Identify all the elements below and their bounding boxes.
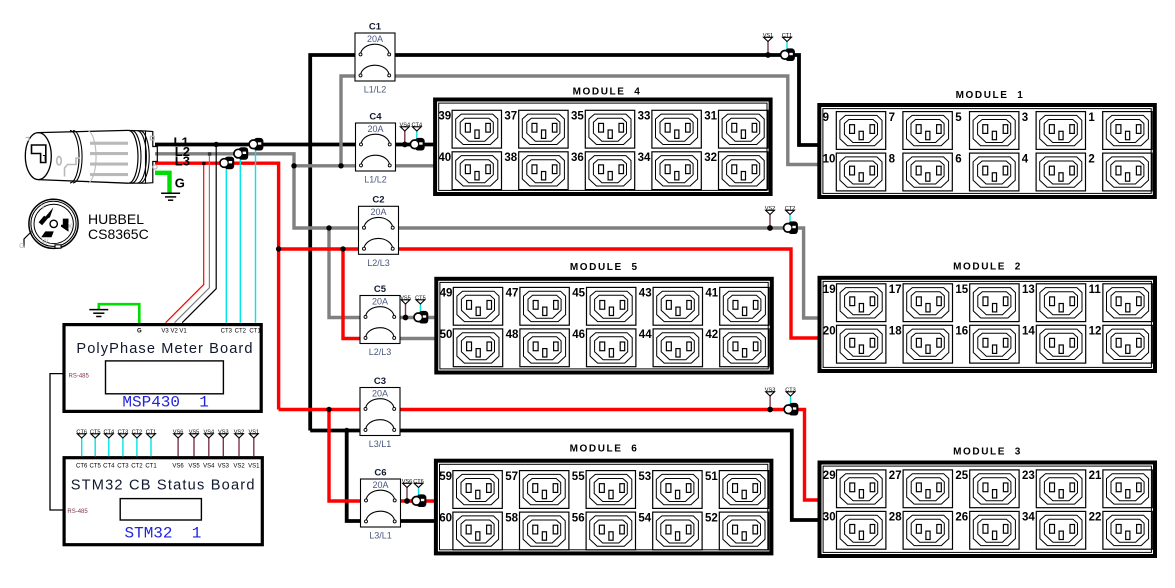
svg-text:55: 55 (572, 471, 585, 483)
svg-text:44: 44 (639, 329, 652, 341)
net flag VS1 (249, 430, 260, 438)
CT1 sense wire (786, 42, 788, 56)
module MODULE 2 outlet strip (820, 261, 1156, 371)
net flag VS6 (173, 430, 184, 438)
svg-text:41: 41 (705, 288, 718, 300)
svg-text:C6: C6 (374, 467, 386, 478)
connector label (88, 211, 149, 242)
wire ground green to meter board (99, 304, 140, 323)
svg-text:MODULE 1: MODULE 1 (956, 90, 1025, 101)
svg-text:7: 7 (889, 112, 895, 124)
svg-text:3: 3 (1022, 112, 1028, 124)
wire L2 C4 output to module 4 bottom (390, 164, 434, 167)
connector face view (round receptacle) (24, 199, 78, 248)
svg-text:15: 15 (955, 284, 968, 296)
wire C5 output to module 5 bottom (395, 337, 435, 340)
net flag VS2 (234, 430, 245, 438)
VS2 sense tap wire (769, 215, 771, 229)
net flag VS6 (402, 479, 413, 487)
svg-text:20A: 20A (372, 480, 388, 490)
net flag VS2 (765, 206, 776, 214)
CT sensor on wire (CT6) (412, 494, 426, 507)
CT sensor on wire (CT2 on L2) (234, 147, 248, 160)
svg-text:56: 56 (572, 512, 585, 524)
net flag CT4 (104, 430, 115, 438)
svg-text:52: 52 (705, 512, 718, 524)
svg-text:VS2: VS2 (234, 430, 245, 436)
svg-text:19: 19 (823, 284, 836, 296)
wire L3 branch to C6 upper pole (329, 410, 367, 502)
junction L3/C6 branch junction (326, 407, 331, 412)
CT sensor on wire (CT3) (784, 403, 798, 416)
svg-text:VS5: VS5 (189, 430, 200, 436)
module MODULE 5 outlet strip (436, 262, 772, 373)
module MODULE 1 outlet strip (819, 90, 1155, 197)
svg-text:29: 29 (823, 470, 836, 482)
CT sensor on wire (CT1) (781, 48, 795, 61)
wire V2 sense tap (175, 154, 210, 323)
svg-text:54: 54 (638, 512, 651, 524)
svg-text:36: 36 (571, 152, 584, 164)
svg-text:20A: 20A (367, 34, 383, 44)
wire L1 riser to C1 and down to C3 (310, 55, 361, 431)
svg-text:31: 31 (704, 111, 717, 123)
svg-text:39: 39 (438, 111, 451, 123)
connector blade mark (32, 145, 46, 163)
svg-text:CT5: CT5 (415, 296, 426, 302)
svg-text:33: 33 (638, 111, 651, 123)
svg-text:Y: Y (41, 203, 46, 212)
svg-text:CT5: CT5 (90, 463, 102, 469)
svg-text:58: 58 (505, 512, 518, 524)
junction L3 branch junction (276, 246, 281, 251)
svg-text:VS1: VS1 (248, 463, 260, 469)
svg-text:37: 37 (504, 111, 517, 123)
junction L3/C5 branch junction (340, 246, 345, 251)
CB status sense flags above STM32 board (81, 438, 83, 456)
svg-text:49: 49 (440, 288, 453, 300)
svg-text:20A: 20A (370, 207, 386, 217)
circuit breaker C4 20A L1/L2 (356, 111, 396, 184)
svg-text:RS-485: RS-485 (69, 374, 90, 380)
svg-text:VS1: VS1 (249, 430, 260, 436)
net flag VS4 (204, 430, 215, 438)
net flag VS3 (765, 388, 776, 396)
svg-text:MODULE 3: MODULE 3 (953, 447, 1022, 458)
svg-text:CT1: CT1 (782, 33, 793, 39)
svg-text:11: 11 (1089, 284, 1102, 296)
wire L2 C5 output to module 5 top (395, 316, 435, 319)
net flag CT3 (785, 388, 796, 396)
CT sensor on wire (CT2) (784, 221, 798, 234)
circuit breaker C6 20A L3/L1 (361, 467, 401, 540)
svg-text:STM32 CB Status Board: STM32 CB Status Board (71, 477, 256, 493)
junction L1 riser junction (308, 142, 313, 147)
V2 tap junction (208, 152, 211, 155)
junction L2/C1 feed junction (338, 163, 343, 168)
wire L3 into C3 upper pole (279, 408, 366, 411)
svg-text:CS8365C: CS8365C (88, 226, 149, 242)
net flag CT4 (412, 123, 423, 131)
svg-text:VS6: VS6 (402, 479, 413, 485)
svg-text:VS4: VS4 (204, 430, 215, 436)
face blade W (41, 231, 54, 237)
CT5 sense wire (419, 304, 421, 318)
svg-text:VS2: VS2 (765, 206, 776, 212)
CT6 sense wire (418, 488, 420, 502)
svg-text:23: 23 (1022, 470, 1035, 482)
wire L1 into C3 lower pole (310, 429, 366, 433)
svg-text:MODULE 2: MODULE 2 (953, 261, 1022, 272)
svg-text:35: 35 (571, 111, 584, 123)
svg-text:C1: C1 (369, 21, 382, 32)
wire CT2 signal to meter board (239, 154, 241, 323)
junction L2 branch junction (291, 163, 296, 168)
svg-text:L3/L1: L3/L1 (369, 439, 392, 449)
svg-text:20A: 20A (372, 388, 388, 398)
net flag VS3 (218, 430, 229, 438)
svg-text:C2: C2 (372, 195, 384, 206)
V3 tap junction (202, 162, 205, 165)
wire L3 C6 output to module 6 top (395, 499, 434, 502)
svg-text:6: 6 (955, 153, 961, 165)
svg-text:42: 42 (705, 329, 718, 341)
wire L1 phase from connector to C4 (155, 143, 362, 147)
svg-text:CT3: CT3 (118, 430, 129, 436)
svg-text:V2: V2 (171, 329, 179, 335)
CT2 sense wire (789, 215, 791, 229)
svg-text:CT6: CT6 (413, 479, 424, 485)
svg-text:L1/L2: L1/L2 (364, 85, 387, 95)
svg-text:21: 21 (1089, 470, 1102, 482)
svg-text:25: 25 (955, 470, 968, 482)
svg-text:57: 57 (505, 471, 518, 483)
CT4 sense wire (416, 131, 418, 145)
svg-text:CT2: CT2 (131, 463, 143, 469)
VS4 sense tap wire (404, 131, 406, 145)
wire L2 C1 output to module 1 bottom (389, 76, 818, 165)
svg-text:VS6: VS6 (172, 463, 184, 469)
svg-text:C5: C5 (374, 284, 387, 295)
svg-text:14: 14 (1022, 326, 1035, 338)
svg-text:50: 50 (440, 329, 453, 341)
CT sensor on wire (CT3 on L3) (220, 157, 234, 170)
svg-text:32: 32 (704, 152, 717, 164)
svg-text:17: 17 (889, 284, 902, 296)
svg-text:MSP430 1: MSP430 1 (122, 394, 208, 412)
svg-text:34: 34 (638, 152, 651, 164)
svg-text:CT2: CT2 (235, 329, 247, 335)
face blade X (61, 219, 69, 232)
svg-text:34: 34 (1022, 512, 1035, 524)
circuit breaker C5 20A L2/L3 (360, 284, 400, 357)
wire L2 branch to C5 upper pole (329, 228, 366, 318)
svg-text:22: 22 (1089, 512, 1102, 524)
net flag VS1 (763, 33, 774, 41)
CT sensor on wire (CT5) (414, 311, 428, 324)
svg-text:CT1: CT1 (146, 430, 157, 436)
svg-text:V3: V3 (161, 329, 169, 335)
wire CT1 signal to meter board (255, 145, 257, 323)
wire L2 phase from connector to C2 (155, 154, 364, 228)
svg-text:VS3: VS3 (218, 463, 230, 469)
PolyPhase Meter Board U1 (64, 325, 261, 412)
svg-text:43: 43 (639, 288, 652, 300)
svg-text:X: X (68, 222, 73, 231)
svg-text:VS2: VS2 (233, 463, 245, 469)
svg-text:MODULE 6: MODULE 6 (570, 444, 639, 455)
svg-text:VS3: VS3 (218, 430, 229, 436)
svg-text:G: G (137, 329, 142, 335)
svg-text:59: 59 (439, 471, 452, 483)
circuit breaker C1 20A L1/L2 (355, 21, 395, 94)
svg-text:PolyPhase Meter Board: PolyPhase Meter Board (76, 341, 253, 357)
svg-text:CT5: CT5 (90, 430, 101, 436)
svg-text:18: 18 (889, 326, 902, 338)
wire RS-485 link between boards (50, 374, 63, 510)
connector small gray details (26, 136, 158, 176)
svg-text:V1: V1 (179, 329, 187, 335)
svg-text:CT4: CT4 (104, 430, 115, 436)
svg-text:RS-485: RS-485 (67, 509, 88, 515)
wire L3 C2 output to module 2 bottom (393, 249, 818, 338)
svg-text:VS6: VS6 (173, 430, 184, 436)
svg-text:51: 51 (705, 471, 718, 483)
svg-text:30: 30 (823, 512, 836, 524)
wire L1 C3 output to module 3 bottom (395, 431, 819, 521)
svg-text:VS4: VS4 (203, 463, 215, 469)
svg-text:CT4: CT4 (103, 463, 115, 469)
svg-text:CT4: CT4 (412, 123, 423, 129)
module MODULE 3 outlet strip (820, 447, 1156, 557)
svg-text:10: 10 (823, 153, 836, 165)
net flag VS4 (400, 123, 411, 131)
svg-text:CT1: CT1 (249, 329, 261, 335)
svg-text:4: 4 (1022, 153, 1029, 165)
svg-text:60: 60 (439, 512, 452, 524)
ground symbol at meter board (89, 310, 108, 317)
svg-text:L1/L2: L1/L2 (364, 175, 387, 185)
svg-text:CT2: CT2 (132, 430, 143, 436)
svg-text:CT1: CT1 (145, 463, 157, 469)
svg-text:C3: C3 (374, 376, 386, 387)
svg-text:L2/L3: L2/L3 (369, 347, 392, 357)
net flag CT3 (118, 430, 129, 438)
svg-text:G: G (19, 241, 25, 250)
wire L2 branch to C4 lower pole (294, 164, 362, 167)
svg-text:1: 1 (1088, 112, 1095, 124)
svg-text:MODULE 4: MODULE 4 (573, 86, 642, 97)
svg-text:C4: C4 (369, 111, 382, 122)
net flag VS5 (400, 296, 411, 304)
wire CT3 signal to meter board (225, 163, 227, 323)
svg-text:CT6: CT6 (76, 430, 87, 436)
net flag VS5 (189, 430, 200, 438)
wire L3 branch to C5 lower pole (343, 249, 366, 339)
junction L1/C6 branch junction (344, 428, 349, 433)
svg-text:38: 38 (504, 152, 517, 164)
svg-text:CT3: CT3 (221, 329, 233, 335)
svg-text:VS3: VS3 (765, 388, 776, 394)
CT3 sense wire (790, 396, 792, 410)
junction L2/C5 branch junction (326, 225, 331, 230)
svg-text:26: 26 (955, 512, 968, 524)
module MODULE 6 outlet strip (436, 444, 772, 554)
face blade Y (39, 216, 48, 226)
wire L1 C1 output to module 1 top (390, 55, 818, 145)
svg-text:VS5: VS5 (400, 296, 411, 302)
VS5 sense tap wire (405, 304, 407, 318)
net flag CT2 (785, 206, 796, 214)
wire L3 branch to C2 lower pole (279, 247, 364, 250)
svg-text:13: 13 (1022, 284, 1035, 296)
net flag CT2 (132, 430, 143, 438)
svg-text:STM32 1: STM32 1 (125, 524, 202, 542)
svg-text:5: 5 (955, 112, 962, 124)
connector ribs (90, 142, 128, 145)
VS1 sense tap wire (767, 42, 769, 56)
wire L1 C6 output to module 6 bottom (395, 519, 434, 523)
svg-text:CT3: CT3 (117, 463, 129, 469)
svg-text:VS4: VS4 (400, 123, 411, 129)
wire L1 branch to C6 lower pole (347, 431, 367, 522)
net flag CT1 (782, 33, 793, 41)
wire L2 C2 output to module 2 top (393, 228, 818, 318)
svg-text:MODULE 5: MODULE 5 (570, 262, 639, 273)
circuit breaker C3 20A L3/L1 (360, 376, 400, 449)
svg-text:2: 2 (1088, 153, 1094, 165)
svg-text:G: G (175, 175, 185, 190)
svg-text:W: W (42, 237, 50, 246)
STM32 CB Status Board U2 (64, 458, 262, 545)
svg-text:27: 27 (889, 470, 902, 482)
circuit breaker C2 20A L2/L3 (359, 195, 399, 268)
wire L1 C4 output to module 4 (390, 143, 434, 147)
svg-text:L3: L3 (175, 154, 190, 169)
svg-text:53: 53 (638, 471, 651, 483)
VS6 sense tap wire (406, 488, 408, 502)
svg-text:47: 47 (506, 288, 519, 300)
ground symbol below connector (161, 193, 180, 200)
net flag CT6 (76, 430, 87, 438)
svg-text:16: 16 (955, 326, 968, 338)
net flag CT1 (146, 430, 157, 438)
svg-text:20A: 20A (372, 296, 388, 306)
module MODULE 4 outlet strip (435, 86, 770, 194)
svg-text:20: 20 (823, 326, 836, 338)
wire L3 C3 output to module 3 top (395, 410, 819, 501)
net flag CT5 (415, 296, 426, 304)
wire V3 sense tap (166, 163, 204, 323)
svg-text:12: 12 (1089, 326, 1102, 338)
svg-text:VS1: VS1 (763, 33, 774, 39)
svg-text:46: 46 (572, 329, 585, 341)
svg-text:HUBBEL: HUBBEL (88, 211, 144, 227)
svg-text:CT3: CT3 (785, 388, 796, 394)
junction V1 tap on L1 (214, 142, 219, 147)
wire L2 branch to C1 lower pole (341, 76, 361, 166)
svg-text:CT6: CT6 (76, 463, 88, 469)
net flag CT6 (413, 479, 424, 487)
svg-text:48: 48 (506, 329, 519, 341)
svg-text:40: 40 (438, 152, 451, 164)
svg-text:28: 28 (889, 512, 902, 524)
svg-text:45: 45 (572, 288, 585, 300)
svg-text:L3/L1: L3/L1 (369, 531, 392, 541)
wire V1 sense tap (182, 145, 216, 323)
net flag CT5 (90, 430, 101, 438)
VS3 sense tap wire (769, 396, 771, 410)
face pin letters (19, 203, 73, 251)
power plug connector HUBBEL CS8365C (side view) (25, 130, 157, 183)
svg-text:CT2: CT2 (785, 206, 796, 212)
CT sensor on wire (CT4) (410, 138, 424, 151)
svg-text:20A: 20A (367, 124, 383, 134)
svg-text:L2/L3: L2/L3 (367, 258, 390, 268)
svg-text:VS5: VS5 (188, 463, 200, 469)
svg-text:8: 8 (889, 153, 896, 165)
svg-text:9: 9 (823, 112, 829, 124)
wire L3 phase from connector down (155, 163, 279, 409)
wire ground green from connector (155, 173, 170, 194)
CT sensor on wire (CT1 on L1) (249, 138, 263, 151)
